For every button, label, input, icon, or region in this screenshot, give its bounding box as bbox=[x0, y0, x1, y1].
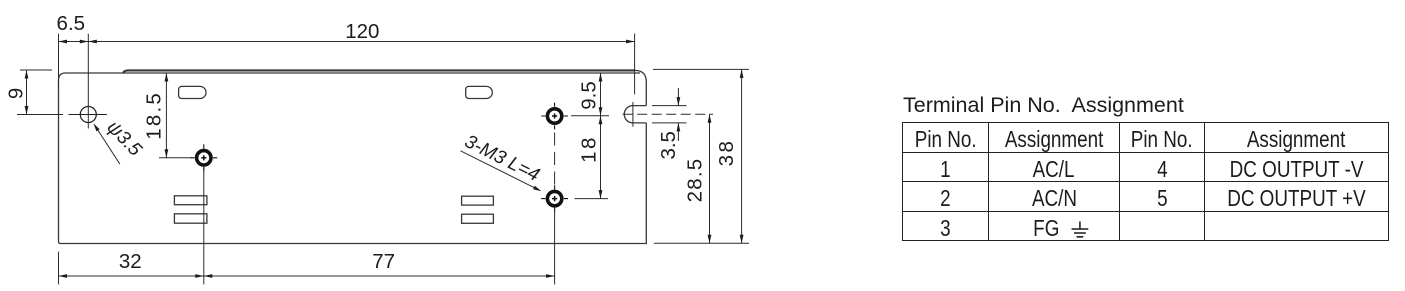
arrowheads dim 32 bbox=[59, 274, 68, 278]
arrowheads dim 9.5 bbox=[599, 73, 603, 82]
arrowheads slot 3.5 bbox=[677, 97, 681, 106]
dim 6.5 ext left bbox=[58, 34, 60, 87]
vent rect right upper bbox=[462, 196, 494, 205]
table title bbox=[903, 94, 1184, 117]
screw3 ext right bbox=[575, 198, 609, 200]
screw3 centerline ext bbox=[554, 208, 556, 285]
screw M3 #2 bbox=[541, 103, 568, 130]
vent rect right lower bbox=[462, 214, 494, 223]
case outline bbox=[59, 70, 647, 243]
svg-text:18: 18 bbox=[577, 135, 600, 163]
dim 77 line bbox=[204, 275, 555, 277]
pin assignment table bbox=[902, 122, 1389, 241]
dim 32 line bbox=[59, 275, 204, 277]
arrowhead leader 3-M3 bbox=[533, 186, 541, 192]
dim 9 ext bottom bbox=[17, 114, 63, 116]
arrowhead leader psi3.5 bbox=[93, 123, 99, 131]
dim 9 ext top bbox=[20, 69, 52, 71]
screw2 ext right bbox=[571, 115, 609, 117]
screw1 centerline ext bbox=[203, 167, 205, 285]
arrowheads dim 120 bbox=[88, 40, 97, 44]
dim 18.5 line bbox=[165, 73, 167, 158]
arrowheads dim 18 bbox=[599, 116, 603, 125]
screw M3 #1 bbox=[190, 144, 217, 171]
svg-text:ψ3.5: ψ3.5 bbox=[102, 117, 145, 161]
leader psi3.5 bbox=[96, 127, 120, 165]
bottom right ext bbox=[654, 242, 749, 244]
mounting hole psi3.5 bbox=[69, 107, 107, 123]
svg-text:3.5: 3.5 bbox=[657, 131, 680, 160]
dim 28.5 line bbox=[709, 114, 711, 243]
top flange bbox=[123, 70, 635, 73]
keyhole slot cutout bbox=[624, 106, 646, 123]
slot dim 3.5 arrow tails bbox=[677, 88, 679, 141]
dim 6.5 line bbox=[59, 41, 89, 43]
arrowheads dim 9 bbox=[25, 70, 29, 79]
arrowheads dim 77 bbox=[204, 274, 213, 278]
vent slot D-shape left bbox=[179, 86, 206, 98]
keyhole vertical centerline bbox=[632, 102, 634, 127]
svg-text:6.5: 6.5 bbox=[57, 12, 86, 35]
screws dashed centerline bbox=[554, 133, 556, 186]
dim 38 line bbox=[741, 69, 743, 243]
svg-text:32: 32 bbox=[119, 250, 142, 273]
dim 18 line bbox=[600, 116, 602, 199]
svg-text:9: 9 bbox=[4, 88, 27, 99]
dim 120 ext right bbox=[634, 34, 636, 95]
svg-text:9.5: 9.5 bbox=[577, 81, 600, 110]
vent slot D-shape right bbox=[466, 86, 493, 98]
svg-text:28.5: 28.5 bbox=[684, 158, 707, 203]
arrowheads dim 38 bbox=[740, 69, 744, 78]
dim 38 ext top bbox=[653, 68, 749, 70]
vent rect left upper bbox=[174, 196, 207, 205]
hole centerline vertical bbox=[87, 34, 89, 129]
svg-text:3-M3 L=4: 3-M3 L=4 bbox=[461, 131, 543, 186]
screw M3 #3 bbox=[541, 185, 568, 212]
dim 18.5 ext bottom bbox=[159, 157, 193, 159]
arrowheads dim 6.5 bbox=[59, 40, 68, 44]
arrowheads dim 28.5 bbox=[708, 114, 712, 123]
arrowheads dim 18.5 bbox=[165, 73, 169, 82]
svg-text:38: 38 bbox=[715, 139, 738, 167]
dim 9.5 line bbox=[600, 73, 602, 116]
dim 120 line bbox=[88, 41, 634, 43]
slot dim 3.5 ext top bbox=[652, 105, 687, 107]
svg-text:18.5: 18.5 bbox=[143, 91, 166, 140]
svg-text:120: 120 bbox=[345, 20, 379, 43]
vent rect left lower bbox=[174, 214, 207, 223]
svg-text:77: 77 bbox=[372, 250, 395, 273]
dim 9 line bbox=[26, 70, 28, 115]
slot dim 3.5 ext bottom bbox=[652, 122, 687, 124]
keyhole dashed centerline bbox=[623, 113, 713, 115]
leader 3-M3 bbox=[461, 151, 539, 190]
dim 32 ext left bbox=[58, 252, 60, 285]
